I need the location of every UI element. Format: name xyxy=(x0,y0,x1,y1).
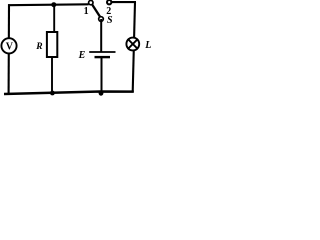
voltmeter V1 xyxy=(1,38,16,53)
svg-text:1: 1 xyxy=(84,6,89,17)
node A (resistor top junction) xyxy=(51,2,56,7)
node B (resistor bottom junction) xyxy=(50,91,55,96)
switch blade S xyxy=(92,5,100,17)
wire top right xyxy=(111,1,136,3)
wire resistor bottom xyxy=(51,57,53,93)
switch pivot S xyxy=(99,17,104,22)
wire resistor top xyxy=(53,5,55,33)
svg-text:V: V xyxy=(6,41,14,52)
switch contact 2 xyxy=(107,0,111,4)
svg-text:L: L xyxy=(144,40,151,51)
wire right vertical xyxy=(133,2,135,92)
wire switch to battery xyxy=(100,19,102,52)
switch contact 1 xyxy=(89,0,93,4)
wire bottom xyxy=(4,92,134,95)
wire top left xyxy=(8,3,89,6)
svg-text:E: E xyxy=(78,50,86,61)
svg-text:R: R xyxy=(35,42,42,52)
svg-text:2: 2 xyxy=(106,6,111,17)
lamp L xyxy=(126,38,139,51)
wire left vertical xyxy=(8,4,10,94)
battery E plate long xyxy=(89,51,115,53)
battery E plate short xyxy=(95,56,111,58)
wire battery bottom xyxy=(101,57,103,93)
node C (battery bottom junction) xyxy=(99,91,104,96)
resistor R xyxy=(47,32,57,57)
